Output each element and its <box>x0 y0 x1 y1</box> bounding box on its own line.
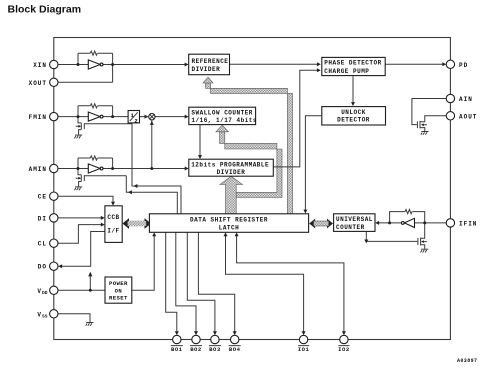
svg-text:DIVIDER: DIVIDER <box>217 169 246 176</box>
svg-text:CHARGE PUMP: CHARGE PUMP <box>324 68 369 75</box>
svg-text:LATCH: LATCH <box>219 225 240 232</box>
svg-text:I/F: I/F <box>107 227 119 234</box>
svg-text:PHASE DETECTOR: PHASE DETECTOR <box>324 60 381 67</box>
svg-text:IO2: IO2 <box>338 346 350 353</box>
svg-text:CCB: CCB <box>107 214 119 221</box>
svg-text:BO3: BO3 <box>209 346 221 353</box>
svg-text:DETECTOR: DETECTOR <box>337 117 370 124</box>
svg-text:1/16, 1/17 4bits: 1/16, 1/17 4bits <box>191 117 257 124</box>
svg-text:AOUT: AOUT <box>459 113 477 120</box>
svg-text:IFIN: IFIN <box>459 220 477 227</box>
svg-text:ON: ON <box>115 287 123 294</box>
svg-text:DI: DI <box>38 215 47 222</box>
svg-text:AMIN: AMIN <box>29 166 47 173</box>
svg-text:UNLOCK: UNLOCK <box>341 109 366 116</box>
svg-text:DD: DD <box>42 290 48 296</box>
svg-text:IO1: IO1 <box>298 346 310 353</box>
svg-text:XOUT: XOUT <box>29 80 47 87</box>
svg-text:12bits PROGRAMMABLE: 12bits PROGRAMMABLE <box>191 162 269 169</box>
svg-text:CL: CL <box>38 241 47 248</box>
svg-text:POWER: POWER <box>109 280 128 287</box>
svg-text:BO2: BO2 <box>190 346 202 353</box>
svg-text:SS: SS <box>42 313 48 319</box>
svg-text:UNIVERSAL: UNIVERSAL <box>336 216 373 223</box>
svg-text:COUNTER: COUNTER <box>336 224 365 231</box>
svg-text:DATA SHIFT REGISTER: DATA SHIFT REGISTER <box>190 217 268 224</box>
svg-text:DO: DO <box>38 264 47 271</box>
svg-text:BO1: BO1 <box>171 346 183 353</box>
svg-text:PD: PD <box>459 62 468 69</box>
svg-text:A03897: A03897 <box>457 358 477 364</box>
svg-text:REFERENCE: REFERENCE <box>192 58 229 65</box>
svg-text:FMIN: FMIN <box>29 114 47 121</box>
svg-text:Block Diagram: Block Diagram <box>8 3 82 15</box>
svg-text:XIN: XIN <box>33 62 47 69</box>
svg-text:AIN: AIN <box>459 96 473 103</box>
svg-text:RESET: RESET <box>109 295 128 302</box>
svg-text:SWALLOW COUNTER: SWALLOW COUNTER <box>191 110 253 117</box>
svg-text:CE: CE <box>38 194 47 201</box>
svg-text:DIVIDER: DIVIDER <box>192 66 221 73</box>
svg-text:BO4: BO4 <box>229 346 241 353</box>
